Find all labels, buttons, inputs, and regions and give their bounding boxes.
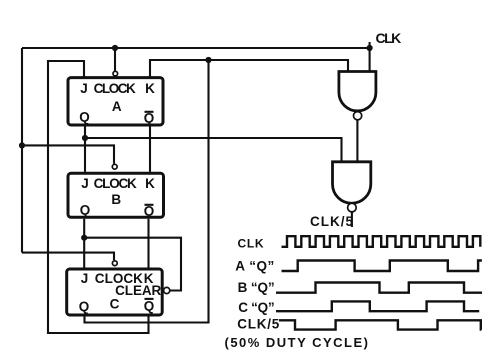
- wire B-Q to J of C: [83, 219, 85, 268]
- svg-text:A “Q”: A “Q”: [235, 258, 274, 273]
- svg-text:Q: Q: [144, 298, 155, 313]
- svg-text:K: K: [145, 81, 155, 96]
- svg-text:J: J: [80, 81, 88, 96]
- svg-text:A: A: [112, 99, 122, 114]
- svg-text:CLEAR: CLEAR: [115, 283, 161, 298]
- clock bubble FF C: [112, 261, 117, 266]
- wire B-Qbar to K of C: [147, 219, 149, 268]
- wire CLK top horizontal rail: [22, 47, 370, 49]
- node CLK junction at label: [367, 45, 373, 51]
- svg-text:K: K: [145, 176, 155, 191]
- wire A-Qbar to K of B: [149, 126, 151, 172]
- wire gate1 right input from CLK: [369, 48, 371, 72]
- waveform C Q: [276, 301, 479, 311]
- clock bubble FF B: [112, 164, 117, 169]
- CLEAR bubble FF C: [164, 287, 170, 293]
- wire C-Q vertical feedback riser: [85, 60, 209, 323]
- flip-flop C: [67, 269, 163, 315]
- wire clock branch to FF C: [22, 253, 114, 261]
- flip-flop B: [68, 173, 164, 218]
- wire B-Q branch to CLEAR of C: [84, 238, 181, 291]
- svg-text:J: J: [81, 271, 89, 286]
- node K-of-A feedback junction: [205, 57, 211, 63]
- NAND gate U1: [339, 72, 376, 111]
- waveform B Q: [276, 283, 482, 293]
- clock bubble FF A: [113, 71, 118, 76]
- node A-Q junction: [82, 135, 88, 141]
- svg-text:(50% DUTY CYCLE): (50% DUTY CYCLE): [225, 335, 369, 350]
- NAND gate U2 output bubble: [348, 203, 357, 212]
- waveform CLK/5: [279, 320, 482, 329]
- svg-text:CLK: CLK: [238, 237, 264, 251]
- svg-text:CLK: CLK: [376, 30, 402, 46]
- wire left vertical CLK rail: [21, 48, 23, 253]
- flip-flop A: [68, 78, 163, 126]
- svg-text:CLK/5: CLK/5: [237, 317, 279, 332]
- svg-text:CLK/5: CLK/5: [310, 214, 353, 229]
- wire gate1 output to gate2 input: [356, 120, 358, 162]
- waveform CLK: [282, 236, 481, 247]
- node CLK junction at FF A drop: [112, 45, 118, 51]
- wire C-Qbar feedback to J of A: [48, 61, 149, 333]
- wire clock branch to FF B: [22, 145, 114, 163]
- svg-text:C “Q”: C “Q”: [238, 300, 274, 315]
- wire gate2 output CLK/5: [351, 212, 353, 227]
- wire CLK label stub: [369, 42, 371, 48]
- wire clock drop to FF A: [114, 48, 116, 71]
- svg-text:Q: Q: [79, 110, 90, 125]
- wire A-Q to J of B: [84, 126, 86, 172]
- node B-Q junction: [81, 235, 87, 241]
- wire C-Q feedback to K of A and gate1 input: [150, 60, 348, 78]
- svg-text:CLOCK: CLOCK: [94, 176, 137, 191]
- svg-text:C: C: [110, 297, 120, 312]
- svg-text:CLOCK: CLOCK: [94, 81, 136, 96]
- svg-text:Q: Q: [79, 299, 90, 314]
- svg-text:B: B: [111, 192, 121, 207]
- waveform A Q: [282, 261, 482, 272]
- wire A-Q branch to gate2 input: [85, 138, 342, 162]
- svg-text:J: J: [81, 176, 89, 191]
- NAND gate U2: [333, 162, 371, 203]
- svg-text:Q: Q: [80, 203, 91, 218]
- NAND gate U1 output bubble: [354, 112, 362, 120]
- svg-text:B “Q”: B “Q”: [238, 280, 275, 295]
- node left rail junction: [19, 142, 25, 148]
